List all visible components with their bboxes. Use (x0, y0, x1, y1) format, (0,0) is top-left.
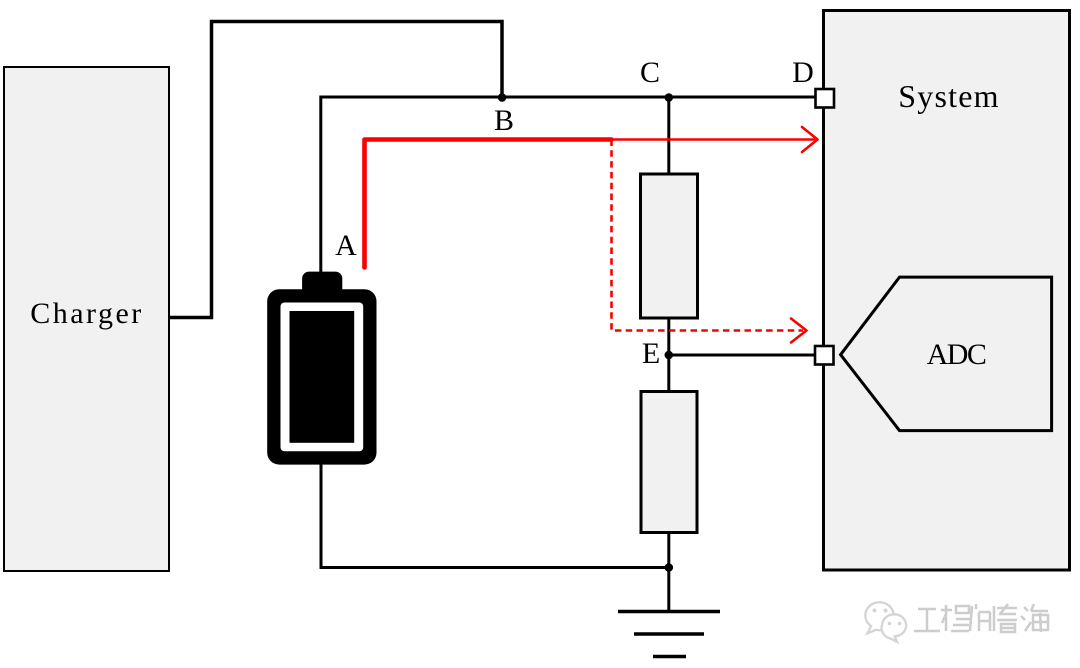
node C (665, 93, 674, 102)
svg-text:ADC: ADC (927, 338, 986, 371)
svg-text:C: C (640, 56, 660, 89)
system box (824, 11, 1070, 571)
red arrowhead at ADC (791, 319, 807, 343)
battery white ring (281, 303, 364, 452)
ADC block U1 (841, 277, 1052, 431)
node E (665, 351, 674, 360)
wire E to R2 (667, 355, 670, 392)
svg-text:D: D (792, 56, 814, 89)
terminal pin ADC input (815, 346, 834, 365)
wire junction to ground (667, 568, 670, 612)
svg-text:E: E (642, 337, 660, 370)
svg-text:B: B (494, 104, 514, 137)
wire C to R1 (667, 97, 670, 176)
wire battery bottom (320, 463, 323, 568)
node B (498, 93, 507, 102)
svg-text:System: System (898, 78, 999, 114)
wire bottom horizontal (320, 566, 669, 569)
wire battery top (319, 96, 322, 276)
charger box (4, 67, 169, 571)
svg-text:Charger: Charger (30, 297, 144, 330)
svg-text:A: A (335, 229, 357, 262)
red arrow line to D (612, 138, 816, 141)
resistor R2 (641, 392, 697, 533)
wire R1 to node E (667, 318, 670, 356)
battery inner cell (290, 311, 355, 443)
watermark text 工程师看海 (914, 604, 1048, 632)
terminal pin D (816, 89, 835, 108)
node ground junction (665, 563, 674, 572)
watermark wechat logo (865, 602, 906, 642)
wire main horizontal B-C-D (321, 96, 816, 99)
battery cap (302, 272, 342, 296)
wire charger to node B (169, 22, 502, 318)
ground (618, 612, 720, 657)
battery BT1 outer (267, 289, 376, 464)
wire R2 to junction (667, 533, 670, 570)
red arrowhead at D (802, 127, 818, 152)
wire E to ADC terminal (669, 354, 816, 357)
red dashed sense path (612, 140, 804, 331)
resistor R1 (641, 174, 698, 318)
red current path A to B thick (365, 140, 612, 268)
